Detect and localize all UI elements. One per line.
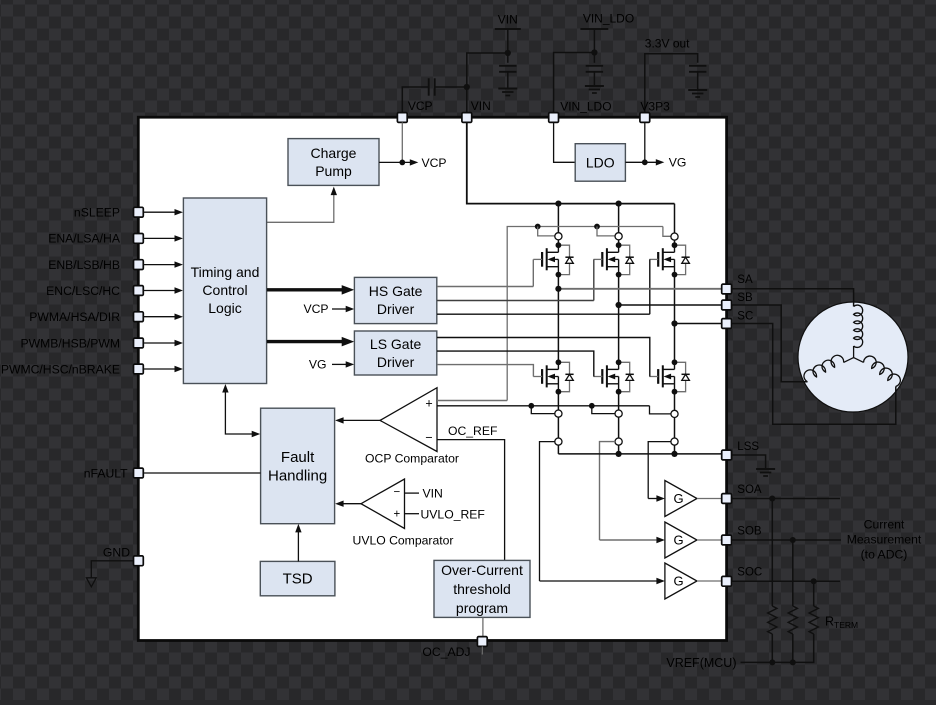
circle gate tap HS B bbox=[615, 233, 622, 240]
junction SC bbox=[671, 320, 677, 326]
svg-text:UVLO Comparator: UVLO Comparator bbox=[353, 534, 454, 548]
wire ENB/LSB/HB to timing logic bbox=[143, 264, 176, 266]
svg-text:nFAULT: nFAULT bbox=[84, 466, 128, 480]
wire SOC to resistor bbox=[813, 581, 815, 606]
pin nFAULT bbox=[134, 468, 144, 478]
motor BLDC bbox=[798, 302, 908, 412]
block TSD bbox=[260, 561, 335, 595]
wire VIN_LDO pin to LDO bbox=[554, 122, 576, 162]
node VIN_LDO supply bbox=[580, 28, 608, 30]
junction VREF A bbox=[769, 659, 775, 665]
svg-text:VIN: VIN bbox=[498, 13, 518, 27]
pin SOA bbox=[722, 494, 732, 504]
junction SOA tap bbox=[769, 496, 775, 502]
pin SOC bbox=[722, 576, 732, 586]
svg-text:VG: VG bbox=[669, 156, 687, 170]
wire OCP plus sense gray bbox=[437, 400, 507, 402]
svg-text:Current: Current bbox=[864, 518, 905, 532]
svg-text:OC_ADJ: OC_ADJ bbox=[422, 645, 470, 659]
wire HS driver out B bbox=[437, 300, 594, 302]
wire VIN rail bbox=[467, 122, 675, 203]
transistor Q6 low-side C bbox=[649, 359, 689, 394]
svg-text:program: program bbox=[456, 600, 508, 616]
wire nFAULT bbox=[143, 472, 260, 474]
wire OCP sense rail bbox=[436, 405, 649, 407]
circle amp tap LS B lower bbox=[615, 438, 622, 445]
wire LS driver out to gate B bbox=[437, 351, 594, 376]
wire LS source column A bbox=[557, 392, 559, 454]
wire SC to motor bbox=[732, 324, 896, 425]
junction VG bbox=[642, 159, 648, 165]
pin PWMC/HSC/nBRAKE bbox=[134, 364, 144, 374]
wire ENC/LSC/HC to timing logic bbox=[143, 290, 176, 292]
svg-text:ENA/LSA/HA: ENA/LSA/HA bbox=[48, 232, 121, 246]
inductor motor winding C bbox=[854, 358, 864, 363]
svg-text:VIN: VIN bbox=[471, 99, 491, 113]
wire V3P3 pin to VG node bbox=[644, 122, 646, 162]
wire HS drain column B bbox=[618, 204, 620, 246]
wire TSD to fault bbox=[297, 530, 299, 562]
ground VIN_LDO cap bbox=[585, 85, 604, 87]
wire VCP pin to output node bbox=[401, 122, 403, 162]
svg-text:Measurement: Measurement bbox=[847, 533, 922, 547]
op-amp UVLO comparator bbox=[361, 479, 405, 529]
svg-text:HS Gate: HS Gate bbox=[369, 283, 423, 299]
wire SOB output bbox=[732, 539, 841, 541]
wire LSS to ground bbox=[732, 455, 766, 469]
wire charge pump output VCP bbox=[379, 161, 412, 163]
wire HS drain column A bbox=[557, 204, 559, 246]
node VIN supply bbox=[495, 28, 521, 30]
wire LS driver out to gate A bbox=[437, 365, 533, 377]
pin SB bbox=[722, 300, 732, 310]
wire amp tap A to SOC amp bbox=[540, 442, 556, 581]
pin PWMB/HSB/PWM bbox=[134, 338, 144, 348]
svg-text:LSS: LSS bbox=[737, 441, 759, 453]
wire LS source column B bbox=[618, 392, 620, 454]
junction LSS B bbox=[616, 451, 622, 457]
capacitor C4 V3P3 bypass bbox=[689, 65, 706, 67]
pin SOB bbox=[722, 535, 732, 545]
block LDO bbox=[575, 144, 625, 182]
svg-text:SC: SC bbox=[737, 311, 753, 323]
wire phase SB bbox=[619, 304, 722, 306]
wire amp tap C to SOA amp bbox=[648, 442, 671, 499]
wire into SOA amp bbox=[648, 498, 656, 500]
block LS Gate Driver bbox=[354, 331, 436, 375]
circle sense tap LS A upper bbox=[555, 410, 562, 417]
junction VCP cap to VIN bbox=[464, 84, 470, 90]
svg-text:OC_REF: OC_REF bbox=[448, 424, 497, 438]
wire GND to ground arrow bbox=[91, 561, 133, 578]
block Timing and Control Logic bbox=[183, 198, 266, 384]
svg-text:PWMA/HSA/DIR: PWMA/HSA/DIR bbox=[29, 310, 120, 324]
circle gate tap HS C bbox=[671, 233, 678, 240]
svg-text:VIN_LDO: VIN_LDO bbox=[583, 12, 634, 26]
svg-text:VIN_LDO: VIN_LDO bbox=[560, 100, 611, 114]
svg-text:Charge: Charge bbox=[311, 145, 357, 161]
pin PWMA/HSA/DIR bbox=[134, 312, 144, 322]
wire VIN_LDO to pin bbox=[554, 53, 595, 114]
block Charge Pump bbox=[288, 139, 379, 186]
svg-text:LDO: LDO bbox=[586, 154, 615, 170]
svg-text:3.3V out: 3.3V out bbox=[645, 37, 690, 51]
ground VIN cap bbox=[498, 88, 517, 90]
transistor Q4 low-side A bbox=[533, 359, 573, 394]
svg-text:−: − bbox=[425, 431, 432, 445]
wire PWMA/HSA/DIR to timing logic bbox=[143, 316, 176, 318]
svg-text:VCP: VCP bbox=[303, 302, 328, 316]
wire UVLO plus input UVLO_REF bbox=[405, 513, 420, 515]
capacitor C3 VIN_LDO bypass bbox=[593, 53, 595, 63]
svg-text:OCP Comparator: OCP Comparator bbox=[365, 451, 459, 465]
junction VIN bbox=[505, 50, 511, 56]
transistor Q5 low-side B bbox=[594, 359, 634, 394]
wire HS drain column C bbox=[674, 204, 676, 246]
block Over-Current threshold program bbox=[434, 560, 530, 617]
wire fault to timing bidirectional bbox=[225, 390, 254, 434]
wire SB to motor bbox=[732, 305, 808, 382]
junction VCP output bbox=[399, 160, 405, 166]
wire timing logic to charge pump bbox=[267, 192, 334, 223]
svg-text:TSD: TSD bbox=[283, 571, 313, 588]
svg-text:SA: SA bbox=[737, 274, 753, 286]
circle sense tap LS B upper bbox=[615, 410, 622, 417]
amplifier G SOB bbox=[665, 522, 697, 558]
svg-text:ENC/LSC/HC: ENC/LSC/HC bbox=[46, 284, 120, 298]
junction VIN rail A bbox=[555, 201, 561, 207]
wire UVLO output to fault bbox=[341, 503, 361, 505]
svg-text:PWMC/HSC/nBRAKE: PWMC/HSC/nBRAKE bbox=[1, 362, 120, 376]
capacitor C2 VIN bypass bbox=[507, 53, 509, 63]
svg-text:Handling: Handling bbox=[268, 467, 327, 484]
pin ENB/LSB/HB bbox=[134, 260, 144, 270]
wire phase column B bbox=[618, 275, 620, 363]
pin ENC/LSC/HC bbox=[134, 286, 144, 296]
wire OCP output to fault bbox=[341, 419, 380, 421]
svg-text:(to ADC): (to ADC) bbox=[861, 548, 908, 562]
svg-text:VREF(MCU): VREF(MCU) bbox=[666, 656, 736, 670]
amplifier G SOA bbox=[665, 481, 697, 517]
junction SA bbox=[555, 286, 561, 292]
pin GND bbox=[134, 556, 144, 566]
bus timing to HS gate driver bbox=[267, 288, 344, 291]
pin VIN_LDO bbox=[549, 113, 559, 123]
block Fault Handling bbox=[261, 408, 335, 524]
transistor Q2 high-side B bbox=[594, 242, 634, 277]
wire OC_ADJ bbox=[482, 617, 484, 636]
pin nSLEEP bbox=[134, 207, 144, 217]
svg-text:nSLEEP: nSLEEP bbox=[74, 206, 120, 220]
junction OCP tap B bbox=[589, 403, 595, 409]
amplifier G SOC bbox=[665, 563, 697, 599]
wire SOA output bbox=[732, 498, 840, 500]
wire amp tap B to SOB amp bbox=[600, 442, 616, 540]
wire OC_REF to threshold block bbox=[437, 440, 505, 561]
svg-text:SOA: SOA bbox=[737, 484, 762, 496]
wire OCP tap C bbox=[650, 406, 672, 414]
wire PWMC/HSC/nBRAKE to timing logic bbox=[143, 368, 176, 370]
svg-text:V3P3: V3P3 bbox=[640, 100, 670, 114]
resistor RTERM B bbox=[788, 606, 797, 634]
inductor motor winding B bbox=[844, 358, 854, 363]
svg-text:ENB/LSB/HB: ENB/LSB/HB bbox=[48, 258, 120, 272]
svg-text:PWMB/HSB/PWM: PWMB/HSB/PWM bbox=[20, 336, 120, 350]
wire HS driver out A bbox=[437, 286, 533, 288]
svg-text:LS Gate: LS Gate bbox=[370, 336, 422, 352]
svg-text:VCP: VCP bbox=[422, 156, 447, 170]
svg-text:GND: GND bbox=[103, 546, 130, 560]
wire LDO output VG bbox=[625, 161, 658, 163]
svg-text:SOB: SOB bbox=[737, 526, 762, 538]
pin VIN bbox=[462, 113, 472, 123]
ground V3P3 cap bbox=[688, 89, 707, 91]
wire phase column A bbox=[557, 275, 559, 363]
junction sense rail A bbox=[535, 224, 541, 230]
pin VCP bbox=[397, 113, 407, 123]
svg-text:+: + bbox=[393, 509, 400, 521]
wire into SOB amp bbox=[600, 539, 657, 541]
block HS Gate Driver bbox=[354, 277, 436, 323]
inductor motor winding A bbox=[854, 305, 863, 347]
capacitor C1 VCP flying bbox=[402, 87, 428, 113]
wire phase SC bbox=[675, 323, 722, 325]
wire phase SA bbox=[558, 288, 721, 290]
wire SOB to resistor bbox=[792, 540, 794, 606]
svg-text:SOC: SOC bbox=[737, 567, 762, 579]
bus timing to LS gate driver bbox=[267, 340, 344, 343]
IC boundary box bbox=[138, 117, 726, 640]
svg-text:Pump: Pump bbox=[315, 163, 352, 179]
ground arrow bbox=[86, 578, 96, 587]
svg-text:Fault: Fault bbox=[281, 449, 315, 466]
wire LS driver out to gate C bbox=[437, 338, 650, 377]
svg-text:Driver: Driver bbox=[377, 301, 415, 317]
junction VIN rail B bbox=[616, 201, 622, 207]
transistor Q1 high-side A bbox=[533, 242, 573, 277]
svg-text:Logic: Logic bbox=[208, 300, 241, 316]
svg-text:−: − bbox=[393, 487, 400, 499]
circle gate tap HS A bbox=[555, 233, 562, 240]
wire HS drain sense rail bbox=[507, 227, 663, 401]
transistor Q3 high-side C bbox=[649, 242, 689, 277]
circle amp tap LS C lower bbox=[671, 438, 678, 445]
pin SA bbox=[722, 284, 732, 294]
pin ENA/LSA/HA bbox=[134, 234, 144, 244]
junction LSS C bbox=[671, 451, 677, 457]
wire VREF rail bbox=[771, 634, 773, 662]
wire SOA to resistor bbox=[771, 499, 773, 607]
svg-text:G: G bbox=[673, 533, 683, 548]
svg-text:VG: VG bbox=[309, 358, 327, 372]
wire LSS rail bbox=[558, 453, 721, 455]
pin V3P3 bbox=[640, 113, 650, 123]
junction OCP tap A bbox=[528, 403, 534, 409]
svg-text:+: + bbox=[425, 397, 432, 411]
svg-text:VCP: VCP bbox=[408, 99, 433, 113]
wire VIN to pin bbox=[467, 53, 508, 113]
pin OC_ADJ bbox=[477, 637, 487, 647]
svg-text:G: G bbox=[673, 491, 683, 506]
junction SOC tap bbox=[811, 578, 817, 584]
pin LSS bbox=[722, 450, 732, 460]
wire LS source column C bbox=[674, 392, 676, 454]
wire UVLO minus input VIN bbox=[405, 492, 420, 494]
svg-text:threshold: threshold bbox=[453, 581, 511, 597]
wire into SOC amp bbox=[540, 580, 657, 582]
wire SOC output bbox=[732, 580, 840, 582]
junction SOB tap bbox=[790, 537, 796, 543]
wire phase column C bbox=[674, 275, 676, 363]
junction VREF B bbox=[790, 659, 796, 665]
ground LSS bbox=[756, 468, 775, 470]
svg-text:Timing and: Timing and bbox=[191, 264, 260, 280]
svg-text:Control: Control bbox=[202, 282, 247, 298]
svg-text:VIN: VIN bbox=[423, 487, 443, 501]
wire nSLEEP to timing logic bbox=[143, 211, 176, 213]
junction SB bbox=[616, 302, 622, 308]
wire HS driver out C bbox=[437, 313, 650, 315]
svg-text:Driver: Driver bbox=[377, 354, 415, 370]
wire ENA/LSA/HA to timing logic bbox=[143, 237, 176, 239]
wire SA to motor bbox=[732, 289, 854, 307]
svg-text:UVLO_REF: UVLO_REF bbox=[421, 507, 485, 521]
svg-text:G: G bbox=[673, 574, 683, 589]
junction VIN_LDO bbox=[591, 49, 597, 55]
resistor RTERM A bbox=[768, 606, 777, 634]
circle sense tap LS C upper bbox=[671, 410, 678, 417]
svg-text:Over-Current: Over-Current bbox=[441, 562, 523, 578]
op-amp OCP comparator bbox=[380, 388, 437, 452]
wire sense rail to FET C tap bbox=[663, 227, 671, 237]
resistor RTERM C bbox=[809, 606, 818, 634]
wire PWMB/HSB/PWM to timing logic bbox=[143, 342, 176, 344]
svg-text:SB: SB bbox=[737, 292, 753, 304]
circle amp tap LS A lower bbox=[555, 438, 562, 445]
junction sense rail B bbox=[594, 224, 600, 230]
pin SC bbox=[722, 319, 732, 329]
